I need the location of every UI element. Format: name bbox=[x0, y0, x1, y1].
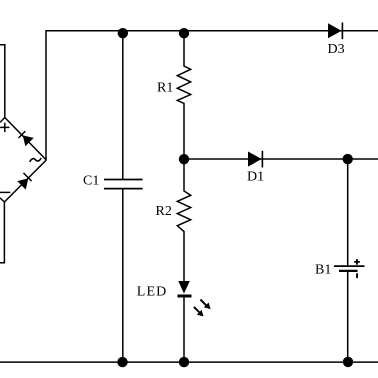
junction: top rail / R1 bbox=[179, 28, 189, 38]
battery B1 (plates and polarity marks) bbox=[334, 259, 365, 278]
wire: LED cathode lead to bottom rail bbox=[183, 297, 185, 362]
wire: middle node rail bbox=[184, 158, 378, 160]
svg-text:D3: D3 bbox=[328, 42, 345, 57]
wire: top positive rail bbox=[46, 31, 378, 160]
svg-text:C1: C1 bbox=[83, 174, 99, 189]
bridge diode on bottom-right edge (points to ~ corner) bbox=[17, 173, 31, 190]
bridge rectifier: bottom-left edge stub bbox=[0, 198, 4, 202]
wire: bridge - corner down then left off-page bbox=[0, 202, 4, 263]
bridge + output mark bbox=[0, 123, 9, 132]
bridge - output mark bbox=[0, 191, 10, 193]
LED (triangle and cathode bar) bbox=[178, 281, 192, 296]
svg-text:R2: R2 bbox=[156, 204, 172, 219]
battery B1 top lead bbox=[347, 159, 349, 265]
junction: bottom rail / C1 bbox=[117, 357, 127, 367]
capacitor C1 bottom lead bbox=[122, 189, 124, 362]
battery B1 bottom lead bbox=[347, 272, 349, 362]
diode D3 bbox=[328, 23, 342, 40]
resistor R1 bbox=[177, 31, 190, 159]
bridge rectifier: top-right edge bbox=[5, 118, 47, 161]
junction: top rail / C1 bbox=[118, 28, 128, 38]
svg-text:D1: D1 bbox=[247, 170, 264, 185]
junction: R1 / R2 / middle rail bbox=[179, 154, 189, 164]
bridge rectifier: top-left edge stub bbox=[0, 118, 5, 123]
junction: bottom rail / LED bbox=[179, 357, 189, 367]
junction: middle rail / B1 bbox=[343, 154, 353, 164]
wire: bridge + corner up then left off-page bbox=[0, 45, 5, 118]
bridge rectifier: bottom-right edge bbox=[4, 160, 46, 202]
svg-text:LED: LED bbox=[137, 285, 168, 300]
capacitor C1 top lead bbox=[122, 31, 124, 179]
resistor R2 bbox=[177, 159, 190, 281]
capacitor C1 plates bbox=[104, 180, 143, 189]
wire: bottom return rail bbox=[0, 361, 378, 363]
bridge ~ AC mark bbox=[30, 158, 42, 162]
svg-text:B1: B1 bbox=[315, 263, 331, 278]
junction: bottom rail / B1 bbox=[343, 357, 353, 367]
bridge diode on top-right edge (points to + corner) bbox=[19, 131, 34, 146]
diode D1 bbox=[248, 151, 262, 168]
svg-text:R1: R1 bbox=[157, 81, 173, 96]
LED emission arrows bbox=[194, 300, 211, 317]
